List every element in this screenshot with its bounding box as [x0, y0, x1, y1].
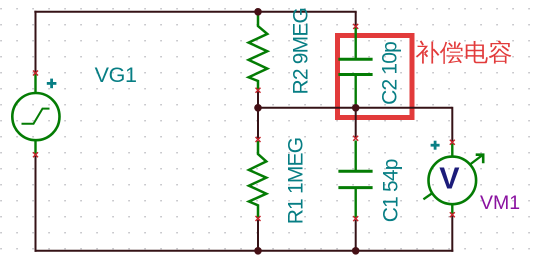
wire C1 bottom to bottom rail: [355, 220, 357, 252]
pin mark C1 bottom: [353, 216, 358, 221]
resistor R2: [249, 13, 268, 90]
VM1 plus sign: [431, 141, 440, 150]
svg-text:VG1: VG1: [95, 63, 137, 87]
pin mark C2 top: [353, 24, 358, 29]
pin mark VM1 bottom: [450, 212, 455, 217]
capacitor C2: [338, 27, 372, 107]
pin mark R1 top: [256, 137, 261, 142]
wire C2 top drop: [355, 12, 357, 26]
wire left vertical upper: [35, 11, 37, 73]
svg-text:V: V: [439, 161, 460, 196]
wire middle junction to R1 top: [257, 107, 259, 139]
wire bottom rail: [35, 250, 454, 252]
wire top rail: [34, 11, 356, 13]
annotation box (compensation capacitor highlight): [338, 36, 413, 118]
svg-text:C2 10p: C2 10p: [379, 42, 402, 105]
wire VM1 bottom to bottom rail: [451, 216, 453, 252]
resistor R1: [249, 141, 266, 218]
voltmeter VM1: [423, 144, 483, 215]
pin mark VM1 top: [450, 140, 455, 145]
wire middle rail: [258, 107, 452, 109]
svg-text:VM1: VM1: [480, 192, 520, 214]
VG1 plus sign: [47, 79, 57, 89]
junction node bottom rail / C1: [352, 247, 360, 255]
junction node middle rail / R junctions: [254, 104, 262, 112]
wire middle junction to C1 top: [355, 107, 357, 138]
pin mark VG1 bottom: [33, 152, 38, 157]
svg-text:C1 54p: C1 54p: [380, 159, 403, 222]
junction node bottom rail / R1: [254, 247, 262, 255]
wire R2 bottom to middle junction: [257, 91, 259, 109]
annotation text 补偿电容: [416, 40, 512, 64]
voltage generator VG1: [12, 73, 59, 155]
svg-text:R2 9MEG: R2 9MEG: [290, 8, 313, 95]
svg-text:R1 1MEG: R1 1MEG: [284, 138, 307, 225]
wire R1 bottom to bottom rail: [257, 220, 259, 252]
pin mark C1 top: [353, 136, 358, 141]
junction node top rail / R2: [254, 8, 262, 16]
wire left vertical lower: [35, 156, 37, 252]
capacitor C1: [338, 141, 372, 219]
wire middle rail drop to VM1: [451, 107, 453, 142]
pin mark R2 bottom: [256, 88, 261, 93]
pin mark R1 bottom: [256, 216, 261, 221]
pin mark VG1 top: [33, 71, 38, 76]
junction node middle rail / C2 bottom: [352, 104, 360, 112]
